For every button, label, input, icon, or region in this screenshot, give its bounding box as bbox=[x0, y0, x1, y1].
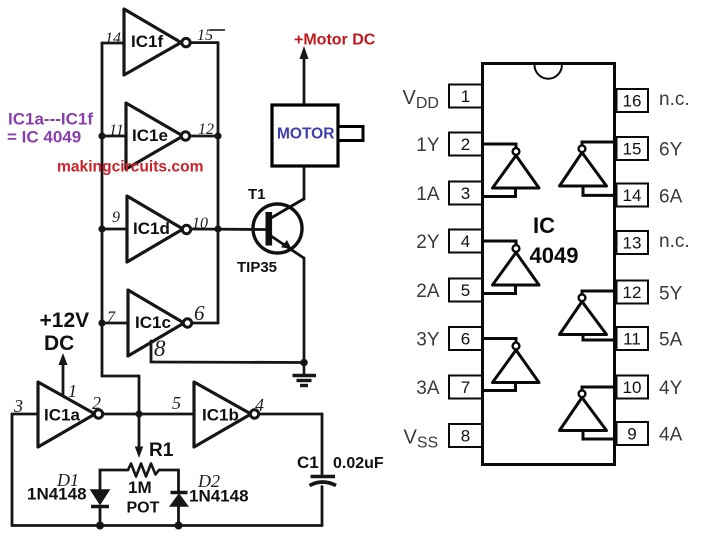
svg-text:8: 8 bbox=[461, 427, 470, 446]
internal inverter 2 (pins 4-5) bbox=[483, 241, 539, 294]
wire D2 anode to rail bbox=[177, 506, 180, 526]
wire left edge vertical bbox=[11, 414, 14, 526]
svg-text:14: 14 bbox=[623, 186, 642, 205]
svg-text:8: 8 bbox=[154, 336, 166, 361]
svg-text:5Y: 5Y bbox=[659, 284, 683, 305]
svg-text:2: 2 bbox=[92, 393, 101, 413]
wire bus jog vertical to node bbox=[138, 376, 141, 414]
svg-text:n.c.: n.c. bbox=[659, 231, 690, 252]
svg-text:6Y: 6Y bbox=[659, 140, 683, 161]
node IC1c input junction bbox=[98, 319, 105, 326]
internal inverter 6 (pins 15-14) bbox=[560, 142, 615, 195]
svg-text:6: 6 bbox=[194, 301, 205, 325]
resistor R1 potentiometer zigzag bbox=[128, 464, 159, 477]
svg-text:9: 9 bbox=[112, 209, 120, 226]
svg-text:4A: 4A bbox=[659, 425, 683, 446]
wire pin8 vertical from IC1c bbox=[150, 341, 153, 362]
pin 1 box bbox=[449, 85, 482, 108]
arrowhead R1 wiper bbox=[135, 447, 143, 459]
inverter IC1a bbox=[38, 382, 103, 447]
svg-text:10: 10 bbox=[623, 378, 642, 397]
wire IC1a output to IC1b input bbox=[103, 413, 194, 416]
inverter IC1b bbox=[194, 382, 259, 447]
internal inverter 3 (pins 6-7) bbox=[483, 339, 539, 391]
svg-text:4049: 4049 bbox=[530, 243, 579, 268]
svg-text:IC1a: IC1a bbox=[44, 406, 80, 425]
pin 4 box bbox=[449, 230, 482, 253]
node IC1d output junction bbox=[214, 225, 221, 232]
node IC1d input junction bbox=[98, 225, 105, 232]
collector diagonal bbox=[271, 199, 305, 219]
wire IC1e input stub bbox=[102, 135, 126, 138]
ground bbox=[293, 363, 317, 386]
internal inverter 5 (pins 12-11) bbox=[560, 291, 615, 340]
wire C1 bottom vertical bbox=[321, 487, 324, 526]
svg-text:16: 16 bbox=[623, 92, 642, 111]
wire IC1f input stub bbox=[102, 42, 124, 45]
wire IC1f output bbox=[191, 41, 219, 44]
svg-text:1A: 1A bbox=[416, 184, 440, 205]
wire D1 cathode to rail bbox=[99, 507, 102, 526]
pin 16 box bbox=[617, 89, 649, 112]
pin number 15 bbox=[197, 27, 225, 44]
wire IC1d output to base bbox=[191, 228, 266, 231]
diode D2 bbox=[171, 493, 188, 507]
wire pin8 horizontal to ground bbox=[151, 361, 304, 364]
svg-text:IC1c: IC1c bbox=[135, 313, 171, 332]
node IC1e input junction bbox=[98, 132, 105, 139]
pin 5 box bbox=[449, 279, 482, 302]
svg-text:13: 13 bbox=[623, 234, 642, 253]
node ground junction bbox=[300, 359, 308, 367]
svg-text:IC1b: IC1b bbox=[202, 406, 239, 425]
node D1 rail junction bbox=[96, 522, 104, 530]
svg-text:IC1d: IC1d bbox=[133, 219, 170, 238]
wire motor supply arrow shaft bbox=[303, 57, 306, 105]
label IC 4049 bbox=[530, 213, 579, 268]
svg-text:12: 12 bbox=[198, 121, 214, 138]
wire output bus vertical bbox=[217, 43, 220, 323]
svg-text:R1: R1 bbox=[149, 440, 174, 461]
wire C1 top vertical bbox=[321, 414, 324, 475]
pin 14 box bbox=[617, 184, 649, 207]
capacitor C1 bbox=[310, 477, 337, 486]
svg-text:14: 14 bbox=[105, 30, 121, 47]
arrowhead +Motor DC bbox=[300, 46, 309, 59]
svg-text:10: 10 bbox=[192, 215, 208, 232]
pin 3 box bbox=[449, 182, 482, 205]
wire R1 left arm bbox=[100, 470, 128, 490]
svg-text:TIP35: TIP35 bbox=[237, 259, 277, 276]
svg-text:12: 12 bbox=[623, 283, 642, 302]
svg-text:IC1e: IC1e bbox=[132, 126, 168, 145]
wire IC1c input stub bbox=[102, 322, 128, 325]
svg-text:5: 5 bbox=[461, 281, 470, 300]
internal inverter 1 (pins 2-3) bbox=[483, 144, 539, 197]
svg-text:1: 1 bbox=[68, 381, 77, 401]
svg-text:3A: 3A bbox=[416, 378, 440, 399]
pin 12 box bbox=[617, 281, 649, 304]
pin 9 box bbox=[617, 422, 649, 445]
pin 15 box bbox=[617, 137, 649, 160]
pin 10 box bbox=[617, 376, 649, 399]
svg-text:15: 15 bbox=[623, 140, 642, 159]
motor M1 bbox=[272, 105, 338, 166]
svg-text:1M: 1M bbox=[128, 478, 152, 497]
svg-text:5A: 5A bbox=[659, 330, 683, 351]
arrowhead +12V supply bbox=[59, 353, 68, 365]
svg-text:IC: IC bbox=[533, 213, 555, 238]
node IC1e output junction bbox=[214, 132, 221, 139]
wire IC1d input stub bbox=[102, 228, 127, 231]
svg-text:3: 3 bbox=[461, 184, 470, 203]
wire bus jog horizontal bbox=[102, 375, 139, 378]
svg-text:2: 2 bbox=[461, 135, 470, 154]
svg-text:n.c.: n.c. bbox=[659, 89, 690, 110]
wire left input bus vertical bbox=[101, 43, 104, 376]
svg-text:9: 9 bbox=[627, 425, 636, 444]
wire +12V arrow shaft bbox=[62, 363, 65, 396]
wire IC1c output stub bbox=[192, 322, 218, 325]
svg-text:makingcircuits.com: makingcircuits.com bbox=[57, 159, 203, 176]
emitter diagonal bbox=[271, 236, 305, 259]
inverter IC1c bbox=[128, 290, 192, 356]
pin 7 box bbox=[449, 376, 482, 399]
svg-text:1Y: 1Y bbox=[416, 135, 440, 156]
node D2 rail junction bbox=[175, 522, 183, 530]
svg-text:1N4148: 1N4148 bbox=[27, 485, 87, 504]
svg-text:MOTOR: MOTOR bbox=[277, 126, 334, 143]
svg-text:11: 11 bbox=[109, 122, 124, 139]
svg-text:5: 5 bbox=[172, 393, 181, 413]
svg-text:+12V: +12V bbox=[40, 309, 90, 332]
svg-text:7: 7 bbox=[107, 309, 116, 326]
svg-text:+Motor DC: +Motor DC bbox=[294, 32, 376, 49]
svg-text:T1: T1 bbox=[248, 186, 266, 203]
wire IC1b output bbox=[259, 413, 323, 416]
svg-text:7: 7 bbox=[461, 378, 470, 397]
IC body bbox=[483, 64, 615, 465]
diode D1 bbox=[91, 490, 109, 507]
svg-text:IC1a---IC1f: IC1a---IC1f bbox=[8, 110, 93, 129]
svg-text:3Y: 3Y bbox=[416, 330, 440, 351]
node R1 wiper junction bbox=[135, 410, 142, 417]
wire R1 right arm bbox=[159, 470, 179, 491]
svg-text:2Y: 2Y bbox=[416, 232, 440, 253]
svg-text:= IC 4049: = IC 4049 bbox=[7, 128, 81, 147]
wire IC1a input left bbox=[12, 413, 38, 416]
svg-text:6A: 6A bbox=[659, 187, 683, 208]
pin 8 box bbox=[449, 424, 482, 447]
emitter arrowhead bbox=[281, 240, 292, 249]
wire IC1e output stub bbox=[190, 135, 219, 138]
IC notch bbox=[535, 65, 562, 79]
svg-text:3: 3 bbox=[13, 396, 23, 416]
pin 2 box bbox=[449, 133, 482, 156]
svg-text:C1: C1 bbox=[297, 453, 319, 472]
wire emitter vertical bbox=[303, 258, 306, 363]
motor shaft bbox=[338, 127, 363, 141]
pin 11 box bbox=[617, 327, 649, 350]
wire bottom rail bbox=[12, 524, 322, 527]
svg-text:0.02uF: 0.02uF bbox=[333, 455, 384, 472]
svg-text:6: 6 bbox=[461, 330, 470, 349]
svg-text:4: 4 bbox=[461, 232, 470, 251]
inverter IC1f bbox=[124, 9, 190, 75]
svg-text:11: 11 bbox=[623, 330, 641, 349]
svg-text:4Y: 4Y bbox=[659, 378, 683, 399]
inverter IC1d bbox=[127, 196, 191, 262]
svg-text:1: 1 bbox=[461, 87, 470, 106]
pin 6 box bbox=[449, 327, 482, 350]
svg-text:4: 4 bbox=[255, 395, 264, 415]
internal inverter 4 (pins 10-9) bbox=[560, 387, 615, 439]
pin 13 box bbox=[617, 231, 649, 254]
svg-text:DC: DC bbox=[44, 332, 74, 355]
wire R1 wiper vertical bbox=[138, 414, 141, 448]
transistor Q T1 bbox=[253, 199, 305, 259]
svg-text:POT: POT bbox=[127, 500, 160, 517]
svg-text:IC1f: IC1f bbox=[131, 32, 163, 51]
svg-text:2A: 2A bbox=[416, 281, 440, 302]
inverter IC1e bbox=[126, 103, 190, 169]
wire collector vertical bbox=[303, 166, 306, 199]
svg-text:1N4148: 1N4148 bbox=[189, 487, 249, 506]
